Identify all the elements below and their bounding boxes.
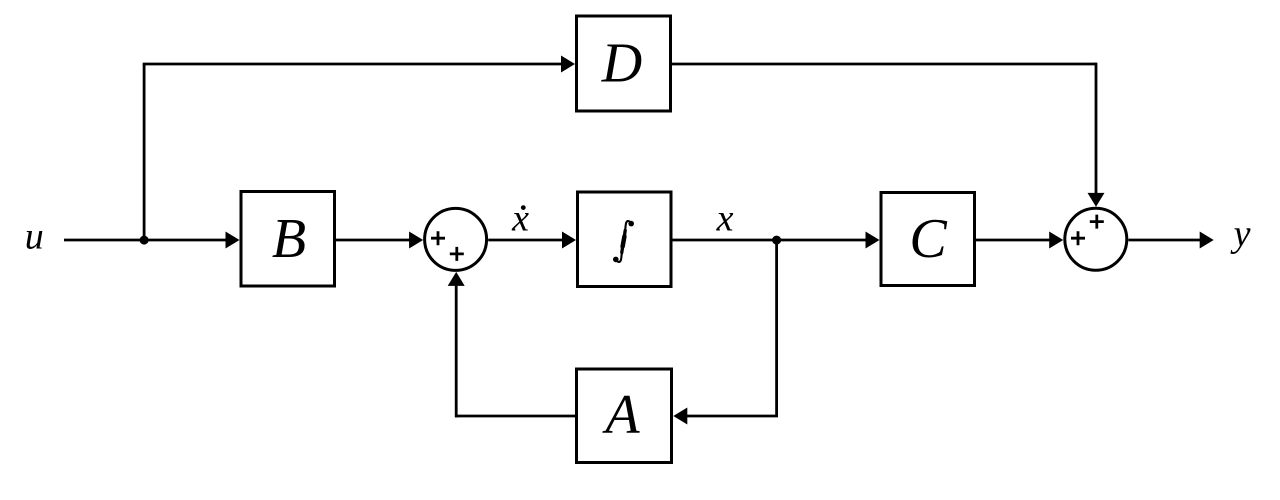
summer 1 plus left bbox=[431, 231, 445, 245]
summer 2 circle bbox=[1065, 208, 1127, 270]
wire D output bbox=[672, 63, 1096, 66]
arrowhead into B bbox=[226, 232, 240, 249]
wire top path to D bbox=[143, 63, 562, 66]
wire B output bbox=[336, 239, 410, 242]
summer 2 plus left bbox=[1071, 231, 1085, 245]
wire feedback into A bbox=[687, 415, 778, 418]
summer 1 plus bottom bbox=[450, 247, 464, 261]
wire output y bbox=[1128, 239, 1200, 242]
wire branch up from u node bbox=[143, 64, 146, 240]
node u branch dot bbox=[140, 236, 149, 245]
arrowhead to y bbox=[1200, 232, 1214, 249]
wire feedback down from x node bbox=[775, 240, 778, 416]
arrowhead into integrator bbox=[562, 232, 576, 249]
arrowhead into summer 1 bbox=[409, 232, 423, 249]
svg-text:u: u bbox=[25, 216, 44, 258]
svg-text:x: x bbox=[716, 198, 734, 240]
block integrator bbox=[578, 192, 672, 287]
svg-text:D: D bbox=[601, 33, 642, 95]
wire C output bbox=[976, 239, 1050, 242]
summer 2 plus top bbox=[1090, 215, 1104, 229]
wire feedback up to summer 1 bbox=[455, 286, 458, 418]
arrowhead into C bbox=[866, 232, 880, 249]
block C bbox=[881, 193, 975, 286]
node x branch dot bbox=[772, 236, 781, 245]
wire summer 1 output bbox=[488, 239, 562, 242]
arrowhead into summer 1 bottom bbox=[448, 272, 465, 286]
svg-text:A: A bbox=[601, 384, 640, 446]
svg-text:B: B bbox=[272, 208, 306, 270]
wire A output left bbox=[455, 415, 575, 418]
summer 1 circle bbox=[425, 208, 487, 270]
svg-text:x: x bbox=[511, 198, 529, 240]
block A bbox=[577, 369, 672, 463]
svg-text:y: y bbox=[1230, 213, 1251, 255]
arrowhead into summer 2 left bbox=[1049, 232, 1063, 249]
block D bbox=[577, 16, 671, 111]
wire u input bbox=[64, 239, 226, 242]
dot above xdot bbox=[521, 205, 526, 210]
svg-text:C: C bbox=[909, 208, 947, 270]
wire integrator output bbox=[673, 239, 867, 242]
integral symbol inside integrator bbox=[613, 221, 634, 262]
wire down into summer 2 bbox=[1095, 63, 1098, 194]
arrowhead into summer 2 top bbox=[1088, 193, 1105, 207]
block B bbox=[241, 192, 335, 287]
arrowhead into D bbox=[561, 56, 575, 73]
arrowhead into A right side bbox=[673, 408, 687, 425]
